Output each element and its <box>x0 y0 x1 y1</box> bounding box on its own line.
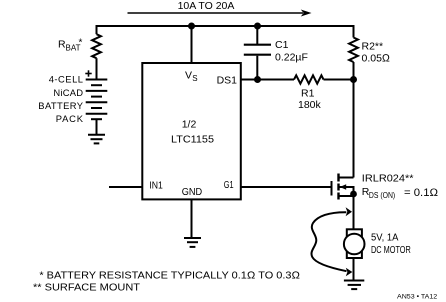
svg-text:DS (ON): DS (ON) <box>369 191 396 200</box>
battery plus sign <box>85 70 91 76</box>
svg-text:V: V <box>185 70 192 82</box>
node dot C1 branch <box>254 23 261 30</box>
svg-text:10A TO 20A: 10A TO 20A <box>178 0 235 12</box>
svg-text:C1: C1 <box>275 39 289 51</box>
svg-text:*: * <box>79 38 83 49</box>
capacitor C1 <box>244 39 308 63</box>
wire top rail <box>97 25 354 27</box>
svg-text:5V, 1A: 5V, 1A <box>371 233 399 244</box>
wire R1 to right rail <box>324 79 354 81</box>
wire right drop top <box>353 25 355 38</box>
wire C1 top stem <box>256 26 258 45</box>
svg-text:1/2: 1/2 <box>182 118 197 130</box>
resistor R1 <box>294 75 324 111</box>
ground motor <box>344 281 364 290</box>
svg-text:R1: R1 <box>301 87 315 99</box>
svg-text:IRLR024**: IRLR024** <box>362 172 414 184</box>
svg-text:IN1: IN1 <box>149 180 163 192</box>
svg-text:0.22µF: 0.22µF <box>275 51 308 63</box>
svg-text:180k: 180k <box>298 99 322 111</box>
svg-text:NiCAD: NiCAD <box>53 87 83 98</box>
svg-text:** SURFACE MOUNT: ** SURFACE MOUNT <box>33 283 140 294</box>
node dot right rail <box>350 76 357 83</box>
svg-text:R2**: R2** <box>362 41 384 53</box>
svg-text:PACK: PACK <box>56 113 84 124</box>
wire G1 net <box>241 186 331 188</box>
wire motor to ground <box>353 259 355 281</box>
transistor Q1 IRLR024 <box>332 172 439 229</box>
svg-text:= 0.1Ω: = 0.1Ω <box>404 187 438 199</box>
svg-text:DC MOTOR: DC MOTOR <box>371 245 411 256</box>
svg-text:* BATTERY RESISTANCE TYPICALLY: * BATTERY RESISTANCE TYPICALLY 0.1Ω TO 0… <box>39 270 300 281</box>
svg-text:0.05Ω: 0.05Ω <box>362 52 391 64</box>
wire GND pin <box>191 199 193 238</box>
motor M1 <box>344 229 411 258</box>
op IC U1 LTC1155 box <box>142 63 241 199</box>
svg-text:S: S <box>192 74 197 83</box>
ground GND pin <box>184 238 201 247</box>
svg-text:G1: G1 <box>224 179 234 191</box>
svg-text:GND: GND <box>182 186 203 198</box>
current arrow 10A TO 20A <box>128 0 312 17</box>
wire VS stem <box>191 26 193 63</box>
svg-text:DS1: DS1 <box>217 74 238 86</box>
ground battery <box>88 135 105 144</box>
svg-text:4-CELL: 4-CELL <box>49 74 83 85</box>
wire IN1 stub <box>109 186 142 188</box>
battery BT 4-cell <box>86 80 108 120</box>
svg-text:AN53 • TA12: AN53 • TA12 <box>397 294 438 301</box>
wire RBAT top <box>96 25 98 34</box>
wire battery to ground <box>96 119 98 134</box>
wire DS1 net <box>241 79 294 81</box>
node dot DS1/C1 <box>254 76 261 83</box>
svg-text:LTC1155: LTC1155 <box>171 133 214 145</box>
svg-text:BATTERY: BATTERY <box>38 100 83 111</box>
wire RBAT to battery <box>96 58 98 79</box>
node dot VS branch <box>188 23 195 30</box>
wire C1 bottom stem <box>256 56 258 80</box>
wire node to MOSFET drain <box>353 80 355 178</box>
resistor R2 <box>349 38 390 65</box>
resistor RBAT <box>58 34 101 58</box>
current loop arrow <box>311 207 352 276</box>
wire R2 to node <box>353 62 355 80</box>
battery label block <box>38 74 83 125</box>
